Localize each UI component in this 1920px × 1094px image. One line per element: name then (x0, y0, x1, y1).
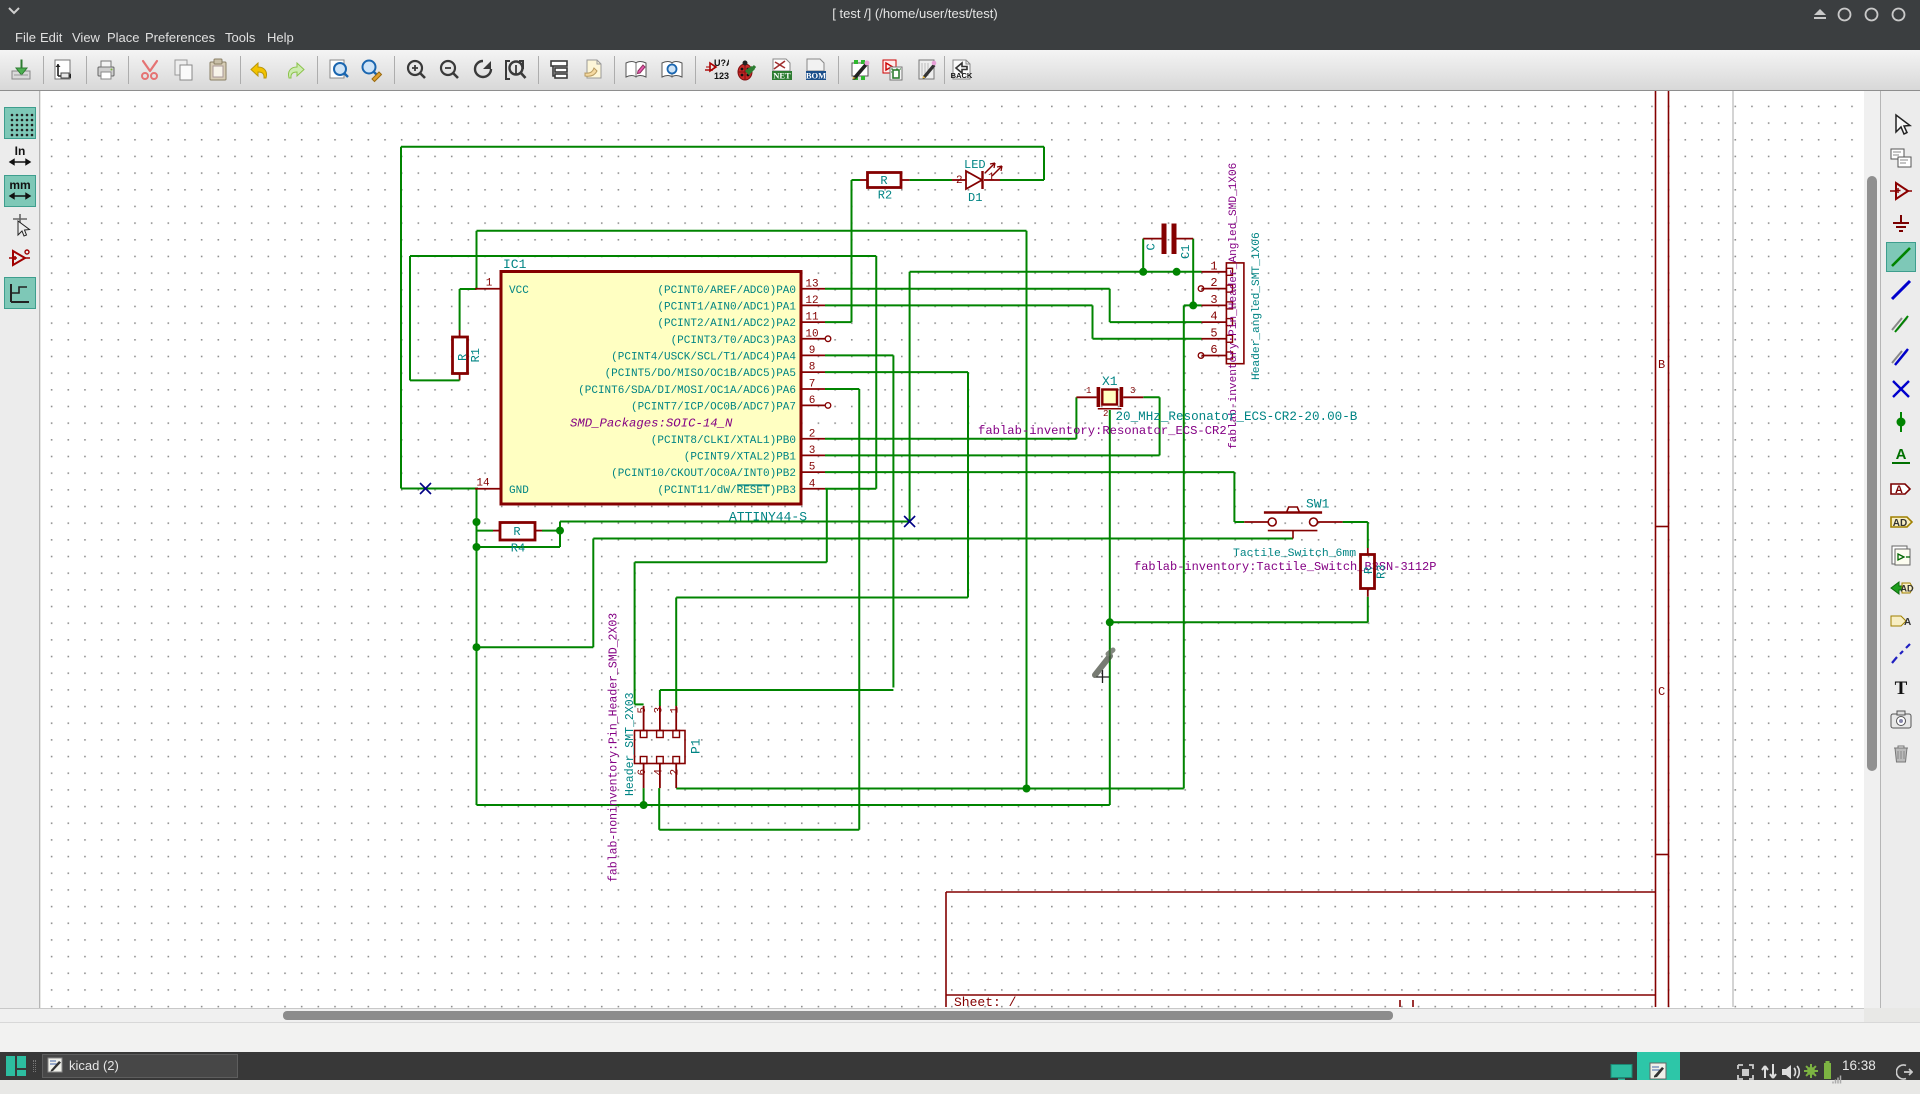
svg-text:3: 3 (653, 707, 665, 714)
svg-text:AD: AD (1901, 583, 1914, 593)
svg-text:12: 12 (805, 295, 818, 307)
svg-text:GND: GND (509, 485, 529, 497)
svg-text:2: 2 (1210, 276, 1217, 290)
svg-text:(PCINT5/DO/MISO/OC1B/ADC5)PA5: (PCINT5/DO/MISO/OC1B/ADC5)PA5 (605, 368, 796, 380)
svg-text:(PCINT4/USCK/SCL/T1/ADC4)PA4: (PCINT4/USCK/SCL/T1/ADC4)PA4 (611, 351, 796, 363)
svg-text:(PCINT9/XTAL2)PB1: (PCINT9/XTAL2)PB1 (684, 451, 797, 463)
svg-text:4: 4 (809, 478, 816, 490)
svg-text:3: 3 (1210, 293, 1217, 307)
svg-text:Tactile_Switch_6mm: Tactile_Switch_6mm (1233, 548, 1356, 560)
svg-text:Header_SMT_2X03: Header_SMT_2X03 (624, 692, 637, 796)
svg-text:7: 7 (809, 379, 816, 391)
svg-text:R1: R1 (469, 348, 483, 362)
svg-text:A: A (1896, 446, 1907, 463)
svg-text:R: R (456, 354, 470, 361)
svg-text:20_MHz_Resonator_ECS-CR2-20.00: 20_MHz_Resonator_ECS-CR2-20.00-B (1116, 410, 1358, 424)
svg-text:10: 10 (805, 328, 818, 340)
svg-text:3: 3 (1130, 386, 1135, 396)
svg-text:5: 5 (637, 707, 649, 714)
svg-text:(PCINT3/T0/ADC3)PA3: (PCINT3/T0/ADC3)PA3 (671, 335, 796, 347)
svg-text:C1: C1 (1179, 245, 1193, 259)
svg-text:U?A: U?A (714, 58, 729, 68)
svg-text:X1: X1 (1102, 374, 1118, 389)
svg-text:C: C (1658, 685, 1665, 699)
svg-text:R: R (513, 525, 520, 539)
svg-text:(PCINT11/dW/RESET)PB3: (PCINT11/dW/RESET)PB3 (657, 485, 796, 497)
svg-text:BACK: BACK (951, 71, 973, 80)
svg-text:(PCINT0/AREF/ADC0)PA0: (PCINT0/AREF/ADC0)PA0 (657, 285, 796, 297)
svg-text:(PCINT2/AIN1/ADC2)PA2: (PCINT2/AIN1/ADC2)PA2 (657, 318, 796, 330)
svg-text:9: 9 (809, 345, 816, 357)
svg-text:Sheet: /: Sheet: / (954, 995, 1017, 1008)
svg-text:T: T (1895, 678, 1908, 699)
svg-text:R2: R2 (878, 189, 892, 203)
svg-text:11: 11 (805, 312, 819, 324)
svg-text:(PCINT1/AIN0/ADC1)PA1: (PCINT1/AIN0/ADC1)PA1 (657, 301, 796, 313)
svg-text:D1: D1 (968, 191, 982, 205)
svg-text:6: 6 (637, 769, 649, 776)
svg-text:B: B (1658, 358, 1665, 372)
svg-text:1: 1 (988, 172, 995, 184)
svg-text:R4: R4 (511, 542, 525, 556)
svg-text:2: 2 (956, 175, 963, 187)
svg-text:(PCINT10/CKOUT/OC0A/INT0)PB2: (PCINT10/CKOUT/OC0A/INT0)PB2 (611, 468, 796, 480)
svg-text:8: 8 (809, 362, 816, 374)
svg-text:5: 5 (809, 462, 816, 474)
svg-text:ATTINY44-S: ATTINY44-S (729, 510, 807, 525)
svg-text:2: 2 (809, 428, 816, 440)
svg-text:1: 1 (1086, 386, 1091, 396)
svg-text:2: 2 (670, 769, 682, 776)
svg-text:fablab-inventory:Resonator_ECS: fablab-inventory:Resonator_ECS-CR2 (978, 424, 1227, 438)
svg-text:fablab-inventory:Tactile_Switc: fablab-inventory:Tactile_Switch_B3SN-311… (1134, 560, 1436, 574)
svg-text:13: 13 (805, 278, 818, 290)
svg-text:2: 2 (1103, 409, 1108, 419)
svg-text:BOM: BOM (806, 71, 826, 81)
svg-text:SMD_Packages:SOIC-14_N: SMD_Packages:SOIC-14_N (570, 417, 733, 431)
svg-text:1: 1 (486, 278, 493, 290)
svg-text:P1: P1 (689, 738, 704, 754)
svg-text:(PCINT6/SDA/DI/MOSI/OC1A/ADC6): (PCINT6/SDA/DI/MOSI/OC1A/ADC6)PA6 (578, 385, 796, 397)
svg-text:3: 3 (809, 445, 816, 457)
svg-text:6: 6 (1210, 343, 1217, 357)
svg-text:1: 1 (670, 707, 682, 714)
svg-text:LED: LED (964, 158, 986, 172)
svg-text:R: R (880, 174, 887, 188)
svg-text:Header_angled_SMT_1X06: Header_angled_SMT_1X06 (1251, 232, 1263, 380)
svg-text:(PCINT8/CLKI/XTAL1)PB0: (PCINT8/CLKI/XTAL1)PB0 (651, 435, 796, 447)
svg-text:6: 6 (809, 395, 816, 407)
svg-text:mm: mm (9, 178, 30, 192)
svg-text:NET: NET (773, 71, 791, 81)
svg-text:5: 5 (1210, 326, 1217, 340)
svg-text:(PCINT7/ICP/OC0B/ADC7)PA7: (PCINT7/ICP/OC0B/ADC7)PA7 (631, 401, 796, 413)
svg-text:SW1: SW1 (1306, 497, 1330, 512)
svg-text:fablab-inventory:Pin_Header_An: fablab-inventory:Pin_Header_Angled_SMD_1… (1228, 163, 1240, 449)
svg-text:4: 4 (1210, 310, 1217, 324)
svg-text:A: A (1904, 617, 1911, 628)
svg-text:fablab-noninventory:Pin_Header: fablab-noninventory:Pin_Header_SMD_2X03 (608, 613, 621, 882)
svg-text:1: 1 (1210, 259, 1217, 273)
svg-text:A: A (1895, 484, 1903, 496)
svg-text:C: C (1145, 243, 1159, 250)
svg-text:In: In (15, 144, 26, 158)
svg-text:VCC: VCC (509, 285, 529, 297)
svg-text:14: 14 (476, 478, 490, 490)
svg-text:123: 123 (714, 71, 729, 81)
svg-text:R3: R3 (1375, 565, 1389, 579)
svg-text:4: 4 (653, 769, 665, 776)
svg-text:AD: AD (1893, 518, 1907, 529)
svg-text:IC1: IC1 (503, 257, 527, 272)
